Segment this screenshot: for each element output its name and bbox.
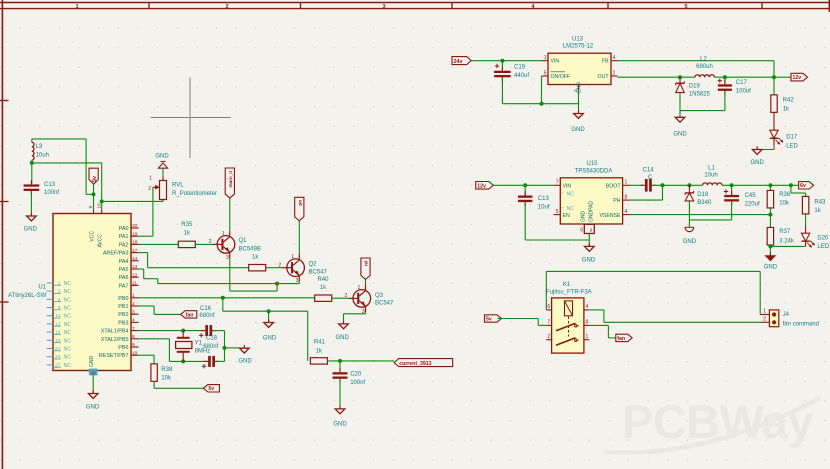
svg-text:1N5825: 1N5825 [689,91,711,97]
svg-text:8: 8 [586,320,589,326]
svg-text:9: 9 [132,342,135,348]
svg-text:2: 2 [225,4,228,10]
svg-text:BOOT: BOOT [606,183,622,189]
svg-text:R43: R43 [814,199,826,205]
svg-text:XTAL2/PB5: XTAL2/PB5 [101,337,129,343]
svg-text:1: 1 [763,309,766,315]
svg-text:27: 27 [55,362,61,368]
svg-text:680nf: 680nf [203,344,218,350]
svg-text:1: 1 [222,231,225,237]
svg-text:PA2: PA2 [119,242,129,248]
svg-text:BC549B: BC549B [239,247,261,253]
svg-text:GND: GND [581,211,587,223]
svg-text:100nf: 100nf [350,380,365,386]
svg-text:NC: NC [64,355,72,361]
svg-text:GND: GND [764,265,778,271]
svg-text:18: 18 [55,338,61,344]
svg-text:R36: R36 [779,192,791,198]
svg-text:13: 13 [132,264,138,270]
svg-text:C20: C20 [350,372,362,378]
svg-text:2: 2 [613,71,616,77]
svg-text:TPS5430DDA: TPS5430DDA [575,168,613,174]
svg-text:NC: NC [64,330,72,336]
svg-text:3: 3 [226,255,229,261]
svg-text:PA7: PA7 [119,283,129,289]
svg-text:PB1: PB1 [118,304,128,310]
svg-text:3: 3 [382,4,385,10]
svg-text:2: 2 [132,301,135,307]
svg-text:10uh: 10uh [704,173,717,179]
svg-text:3.24k: 3.24k [779,238,795,244]
svg-text:LED: LED [786,143,798,149]
svg-text:GND: GND [751,160,765,166]
svg-text:PH: PH [613,198,620,204]
svg-text:R35: R35 [181,222,193,228]
svg-text:3: 3 [132,309,135,315]
svg-text:Q2: Q2 [309,261,318,267]
svg-text:fan: fan [617,336,625,342]
svg-text:J4: J4 [783,312,790,318]
svg-text:L1: L1 [708,165,715,171]
svg-text:PA0: PA0 [119,226,129,232]
svg-text:2: 2 [345,293,348,299]
svg-text:1k: 1k [320,285,327,291]
svg-text:C19: C19 [514,65,526,71]
svg-text:BC547: BC547 [375,301,394,307]
svg-text:po: po [299,200,304,206]
svg-text:current_3913: current_3913 [399,361,431,367]
svg-text:1k: 1k [783,106,790,112]
svg-text:LED: LED [817,244,829,250]
svg-text:AREF/PA3: AREF/PA3 [103,251,129,257]
svg-text:Q1: Q1 [239,238,248,244]
svg-text:GND: GND [577,82,583,94]
svg-text:5v: 5v [486,316,492,322]
svg-text:12: 12 [132,272,138,278]
svg-text:GND: GND [582,258,596,264]
svg-text:1: 1 [291,254,294,260]
svg-text:BC547: BC547 [309,270,328,276]
svg-text:9: 9 [88,206,93,209]
svg-text:10k: 10k [779,200,790,206]
svg-text:GNDPAD: GNDPAD [588,201,594,222]
svg-text:1: 1 [586,334,589,340]
svg-text:RVL: RVL [172,183,184,189]
svg-text:NC: NC [64,297,72,303]
svg-text:5: 5 [556,209,559,215]
svg-text:24v: 24v [454,59,463,65]
svg-text:C14: C14 [642,168,654,174]
svg-text:1: 1 [75,4,78,10]
svg-text:C16: C16 [200,306,212,312]
svg-text:L2: L2 [700,56,707,62]
svg-text:24: 24 [55,354,61,360]
svg-text:4: 4 [132,318,135,324]
svg-text:1: 1 [132,293,135,299]
svg-text:PB6: PB6 [118,345,128,351]
svg-text:C13: C13 [44,182,56,188]
svg-text:1: 1 [544,55,547,61]
svg-text:B340: B340 [697,200,712,206]
svg-text:LM2575-12: LM2575-12 [563,44,594,50]
svg-text:GND: GND [336,335,350,341]
svg-text:VCC: VCC [90,231,96,242]
svg-text:10uf: 10uf [538,205,550,211]
svg-text:VSENSE: VSENSE [599,213,621,219]
svg-text:16: 16 [55,330,61,336]
svg-text:12v: 12v [477,183,486,189]
svg-text:NC: NC [567,192,575,198]
svg-text:14: 14 [132,256,138,262]
svg-text:VIN: VIN [551,59,560,65]
svg-text:10: 10 [132,350,138,356]
svg-text:1: 1 [58,280,61,286]
svg-text:3: 3 [58,289,61,295]
svg-text:20: 20 [132,223,138,229]
svg-text:GND: GND [673,132,687,138]
svg-text:R37: R37 [779,229,791,235]
svg-text:7: 7 [547,320,550,326]
svg-text:1k: 1k [184,231,191,237]
svg-text:4: 4 [58,297,61,303]
svg-text:VIN: VIN [563,183,572,189]
svg-text:18: 18 [132,240,138,246]
svg-text:GND: GND [238,359,252,365]
svg-text:10k: 10k [161,375,172,381]
svg-text:NC: NC [64,281,72,287]
svg-text:PA4: PA4 [119,259,129,265]
svg-text:R40: R40 [318,277,330,283]
svg-text:NC: NC [64,338,72,344]
svg-text:4: 4 [613,55,616,61]
svg-text:GND: GND [155,154,169,160]
svg-text:100nf: 100nf [44,190,59,196]
svg-text:4: 4 [625,209,628,215]
svg-text:D17: D17 [786,134,798,140]
svg-text:D20: D20 [817,235,829,241]
svg-text:C: C [648,175,653,181]
svg-text:6v: 6v [800,183,806,189]
svg-text:D18: D18 [697,192,709,198]
svg-text:8: 8 [132,334,135,340]
svg-text:1: 1 [625,180,628,186]
svg-text:11: 11 [132,281,137,287]
svg-text:2: 2 [278,263,281,269]
svg-text:2: 2 [763,317,766,323]
svg-text:5v: 5v [92,176,98,182]
svg-text:17: 17 [132,248,138,254]
svg-text:R_Potentiometer: R_Potentiometer [172,191,217,197]
svg-text:GND: GND [89,356,95,368]
svg-text:2: 2 [209,239,212,245]
svg-text:C17: C17 [736,80,748,86]
svg-text:5: 5 [684,4,687,10]
svg-text:EN: EN [563,213,570,219]
svg-text:12v: 12v [793,75,802,81]
svg-text:GND: GND [263,336,277,342]
svg-text:rel: rel [364,261,370,267]
svg-text:NC: NC [64,322,72,328]
svg-text:C13: C13 [538,196,550,202]
svg-text:NC: NC [64,289,72,295]
svg-text:7: 7 [556,180,559,186]
svg-text:680nf: 680nf [199,313,214,319]
svg-text:6: 6 [547,304,550,310]
svg-text:ON/OFF: ON/OFF [551,74,571,80]
svg-text:5v: 5v [208,386,214,392]
svg-text:7: 7 [132,326,135,332]
svg-text:D19: D19 [689,83,701,89]
svg-text:Fujitsu_FTR-F3A: Fujitsu_FTR-F3A [546,289,592,295]
svg-text:19: 19 [132,231,138,237]
svg-text:16: 16 [91,370,97,375]
svg-text:fan command: fan command [783,321,819,327]
svg-text:C45: C45 [745,193,757,199]
svg-text:R41: R41 [314,340,326,346]
svg-text:6: 6 [580,228,583,234]
svg-text:6: 6 [58,305,61,311]
svg-text:Q3: Q3 [375,293,384,299]
svg-text:~: ~ [561,191,564,197]
svg-text:2: 2 [148,186,151,192]
svg-text:main_ir: main_ir [228,170,234,187]
svg-text:FB: FB [602,59,609,65]
svg-text:9: 9 [590,228,593,233]
svg-text:PB0: PB0 [118,296,128,302]
svg-text:10: 10 [96,203,101,209]
svg-text:GND: GND [571,127,585,133]
svg-text:NC: NC [64,306,72,312]
svg-text:U13: U13 [572,37,584,43]
svg-text:Y1: Y1 [195,340,203,346]
svg-text:PB3: PB3 [118,320,128,326]
svg-text:8: 8 [625,195,628,201]
svg-text:10uh: 10uh [36,152,49,158]
svg-text:U1: U1 [38,284,46,290]
svg-text:PA1: PA1 [119,234,129,240]
svg-text:PA6: PA6 [119,275,129,281]
svg-text:440uf: 440uf [514,73,529,79]
svg-text:1: 1 [358,285,361,291]
svg-text:2: 2 [547,334,550,340]
svg-text:ATtiny26L-SW: ATtiny26L-SW [8,293,47,299]
svg-text:5: 5 [544,71,547,77]
svg-text:U15: U15 [586,161,598,167]
svg-text:680uh: 680uh [696,64,713,70]
svg-text:L3: L3 [36,144,43,150]
svg-text:GND: GND [683,239,697,245]
svg-text:12: 12 [55,321,61,327]
svg-text:PA5: PA5 [119,267,129,273]
svg-text:OUT: OUT [598,74,610,80]
svg-text:C18: C18 [206,335,218,341]
svg-text:~: ~ [561,205,564,211]
svg-text:1k: 1k [316,348,323,354]
svg-text:GND: GND [333,422,347,428]
svg-text:4: 4 [586,304,589,310]
svg-text:1k: 1k [252,255,259,261]
svg-text:GND: GND [86,405,100,411]
svg-text:11: 11 [56,313,61,319]
svg-text:NC: NC [64,314,72,320]
svg-text:RESET/PB7: RESET/PB7 [99,353,129,359]
svg-text:NC: NC [64,347,72,353]
svg-text:1: 1 [149,176,152,182]
svg-text:NC: NC [64,363,72,369]
svg-text:XTAL1/PB4: XTAL1/PB4 [101,329,129,335]
svg-text:21: 21 [55,346,61,352]
svg-text:AVCC: AVCC [98,234,104,248]
svg-text:220uf: 220uf [745,201,760,207]
svg-text:fan: fan [186,312,194,318]
svg-text:NC: NC [567,206,575,212]
svg-text:R38: R38 [161,367,173,373]
svg-text:100uf: 100uf [736,88,751,94]
svg-text:PB2: PB2 [118,312,128,318]
svg-text:GND: GND [24,227,38,233]
svg-text:1k: 1k [814,208,821,214]
svg-text:R42: R42 [783,97,795,103]
svg-text:K1: K1 [563,282,571,288]
